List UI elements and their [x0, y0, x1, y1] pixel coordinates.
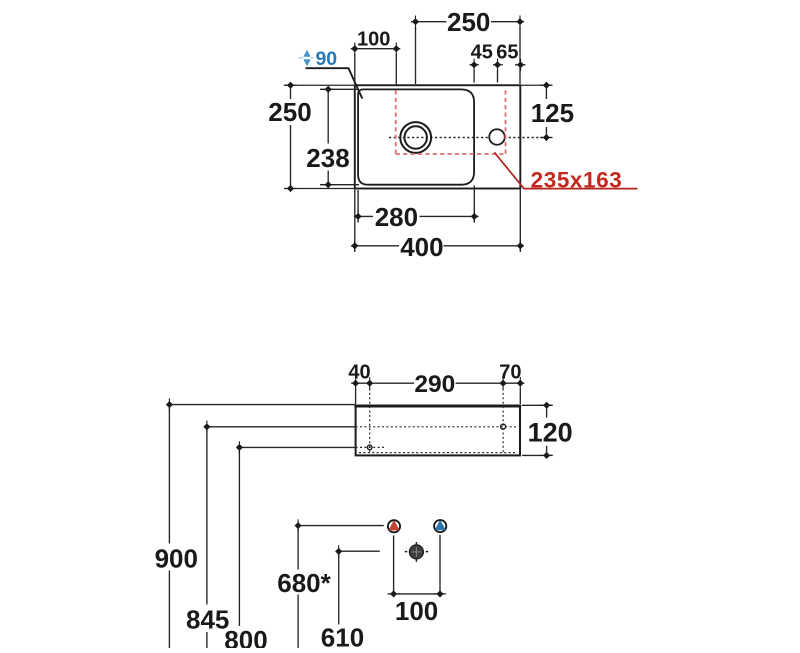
dim 100 ticks — [391, 591, 397, 597]
hot water icon — [388, 520, 400, 532]
basin bowl — [358, 89, 474, 184]
basin outer rect — [355, 85, 521, 188]
dim 40/290/70 ticks — [353, 380, 359, 386]
drain inner circle — [405, 126, 427, 148]
svg-text:845: 845 — [186, 605, 229, 635]
red leader — [494, 152, 637, 188]
svg-text:40: 40 — [348, 361, 370, 383]
svg-text:680*: 680* — [277, 568, 331, 598]
dotted verticals inside — [369, 389, 371, 455]
dim 120 ticks — [544, 403, 550, 409]
faucet hole — [489, 129, 505, 145]
dim 250 left — [290, 85, 292, 99]
svg-text:90: 90 — [315, 48, 337, 70]
dim 125 ticks — [544, 82, 550, 88]
dotted centerline — [356, 426, 516, 428]
dim 100 top — [351, 48, 401, 50]
dim 250 top ticks — [413, 19, 419, 25]
dim 680 — [298, 525, 384, 527]
svg-text:45: 45 — [471, 42, 493, 64]
svg-text:100: 100 — [395, 596, 438, 626]
dim 610 — [339, 550, 380, 552]
dim 250 top — [411, 21, 447, 23]
dim 800 — [239, 446, 355, 448]
dim 238 — [327, 89, 329, 143]
mount hole left — [367, 445, 372, 450]
dim 250 left ticks — [288, 82, 294, 88]
dim 100 ticks — [352, 46, 358, 52]
svg-text:900: 900 — [155, 543, 198, 573]
blue depth arrow glyph — [299, 50, 314, 67]
tick marks (diamond) top view — [284, 16, 552, 253]
svg-text:250: 250 — [268, 97, 311, 127]
svg-text:610: 610 — [321, 622, 364, 648]
svg-text:250: 250 — [447, 7, 490, 37]
dim 125 — [545, 85, 547, 99]
thick top edge — [354, 405, 521, 408]
drain outer circle — [400, 122, 431, 153]
leader 90 — [306, 68, 363, 98]
dim 45 65 ticks — [471, 62, 477, 68]
dim 45 65 — [470, 64, 479, 66]
dim lines — [284, 22, 552, 252]
dim 238 ticks — [325, 87, 331, 93]
red dashed rect 235x163 — [396, 90, 506, 154]
svg-text:800: 800 — [224, 625, 267, 648]
mount hole right — [501, 424, 506, 429]
corner ticks — [167, 402, 173, 408]
svg-text:238: 238 — [306, 143, 349, 173]
svg-text:100: 100 — [357, 29, 390, 51]
svg-text:65: 65 — [496, 42, 518, 64]
svg-text:235x163: 235x163 — [531, 167, 623, 192]
dim 120 — [546, 406, 548, 418]
svg-text:70: 70 — [499, 361, 521, 383]
dotted bottom line — [359, 452, 516, 454]
dim 280 ticks — [355, 214, 361, 220]
dim 400 — [351, 245, 399, 247]
dim 100 bottom — [393, 536, 395, 598]
front rect — [356, 406, 520, 456]
cold water icon — [434, 520, 446, 532]
svg-text:400: 400 — [400, 232, 443, 262]
svg-text:120: 120 — [528, 418, 573, 448]
centerline dotted — [389, 137, 552, 139]
svg-text:280: 280 — [375, 202, 418, 232]
svg-text:125: 125 — [531, 98, 574, 128]
dim 845 — [207, 426, 356, 428]
dim 40 290 70 — [351, 382, 414, 384]
drain icon — [405, 542, 428, 562]
ticks front view — [167, 377, 553, 597]
dim 900 — [169, 404, 355, 406]
svg-text:290: 290 — [414, 371, 455, 398]
dim 400 ticks — [352, 243, 358, 249]
dotted lower line — [356, 446, 386, 448]
dim 280 — [354, 215, 373, 217]
